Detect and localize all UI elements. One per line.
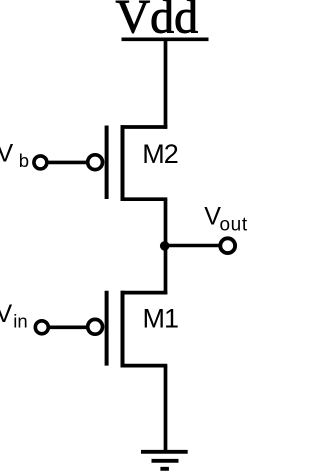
wire M1 source to ground bbox=[164, 366, 168, 452]
svg-text:Vdd: Vdd bbox=[116, 0, 199, 44]
net label Vdd bbox=[116, 0, 199, 44]
wire Vdd rail to M2 drain bbox=[164, 39, 168, 129]
transistor M2 bbox=[88, 125, 168, 201]
output node junction bbox=[160, 241, 170, 251]
terminal Vin bbox=[35, 321, 48, 334]
M1 gate bar bbox=[105, 291, 109, 366]
wire Vin terminal to M1 gate bubble bbox=[48, 325, 86, 329]
wire output node to Vout terminal bbox=[164, 244, 220, 248]
svg-text:M2: M2 bbox=[142, 139, 178, 169]
ground bar 1 bbox=[141, 450, 188, 454]
wire output node to M1 drain bbox=[164, 246, 168, 295]
label M1 bbox=[143, 304, 179, 334]
label Vb bbox=[0, 140, 29, 172]
wire Vb terminal to M2 gate bubble bbox=[47, 161, 87, 165]
svg-text:M1: M1 bbox=[143, 304, 179, 334]
ground bar 2 bbox=[152, 459, 179, 463]
M1 channel bar bbox=[121, 291, 125, 368]
M2 drain stub bbox=[121, 125, 168, 129]
M1 source stub bbox=[121, 364, 168, 368]
label M2 bbox=[142, 139, 178, 169]
wire M2 source to output node bbox=[164, 199, 168, 248]
M2 channel bar bbox=[121, 125, 125, 201]
label Vout bbox=[204, 202, 248, 235]
M2 gate bubble bbox=[88, 155, 103, 170]
terminal Vb bbox=[34, 156, 47, 169]
M1 gate bubble bbox=[88, 319, 103, 334]
transistor M1 bbox=[88, 291, 168, 368]
terminal Vout bbox=[220, 238, 235, 253]
label Vin bbox=[0, 300, 28, 332]
M1 drain stub bbox=[121, 291, 168, 295]
ground bbox=[141, 452, 188, 469]
ground bar 3 bbox=[160, 467, 169, 471]
M2 gate bar bbox=[105, 126, 109, 200]
M2 source stub bbox=[121, 197, 168, 201]
Vdd power rail bbox=[122, 37, 209, 41]
